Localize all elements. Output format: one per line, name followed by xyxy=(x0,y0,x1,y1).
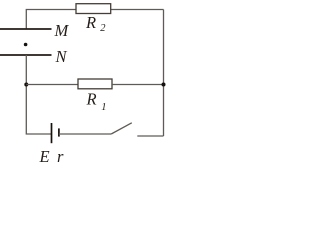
capacitor plate N xyxy=(0,54,52,56)
svg-text:2: 2 xyxy=(100,23,106,34)
node junction on right vertical xyxy=(162,83,166,87)
svg-text:E: E xyxy=(39,147,50,163)
resistor R2 xyxy=(76,4,111,14)
svg-text:1: 1 xyxy=(101,102,106,113)
svg-text:r: r xyxy=(57,147,64,163)
resistor R1 xyxy=(78,79,112,89)
charged particle between plates xyxy=(24,43,28,47)
wire left vertical: N plate down to bottom corner xyxy=(26,55,51,134)
svg-text:R: R xyxy=(85,13,96,32)
switch blade (open) xyxy=(111,123,132,134)
node junction on left vertical at R1 branch xyxy=(24,83,28,87)
wire top: M junction to R2 to right corner xyxy=(26,10,163,30)
switch fixed contact foot xyxy=(137,135,163,137)
label R1 xyxy=(86,90,107,114)
battery E r : long plate xyxy=(51,123,53,143)
svg-text:N: N xyxy=(55,47,68,66)
capacitor plate M xyxy=(0,28,52,30)
wire R1 branch right xyxy=(112,84,164,86)
svg-text:M: M xyxy=(54,21,70,40)
wire R1 branch left xyxy=(26,84,78,86)
wire right vertical xyxy=(163,10,165,137)
battery short plate xyxy=(58,128,60,136)
svg-text:R: R xyxy=(86,90,97,109)
wire battery to switch xyxy=(59,133,111,135)
label R2 xyxy=(85,13,106,34)
